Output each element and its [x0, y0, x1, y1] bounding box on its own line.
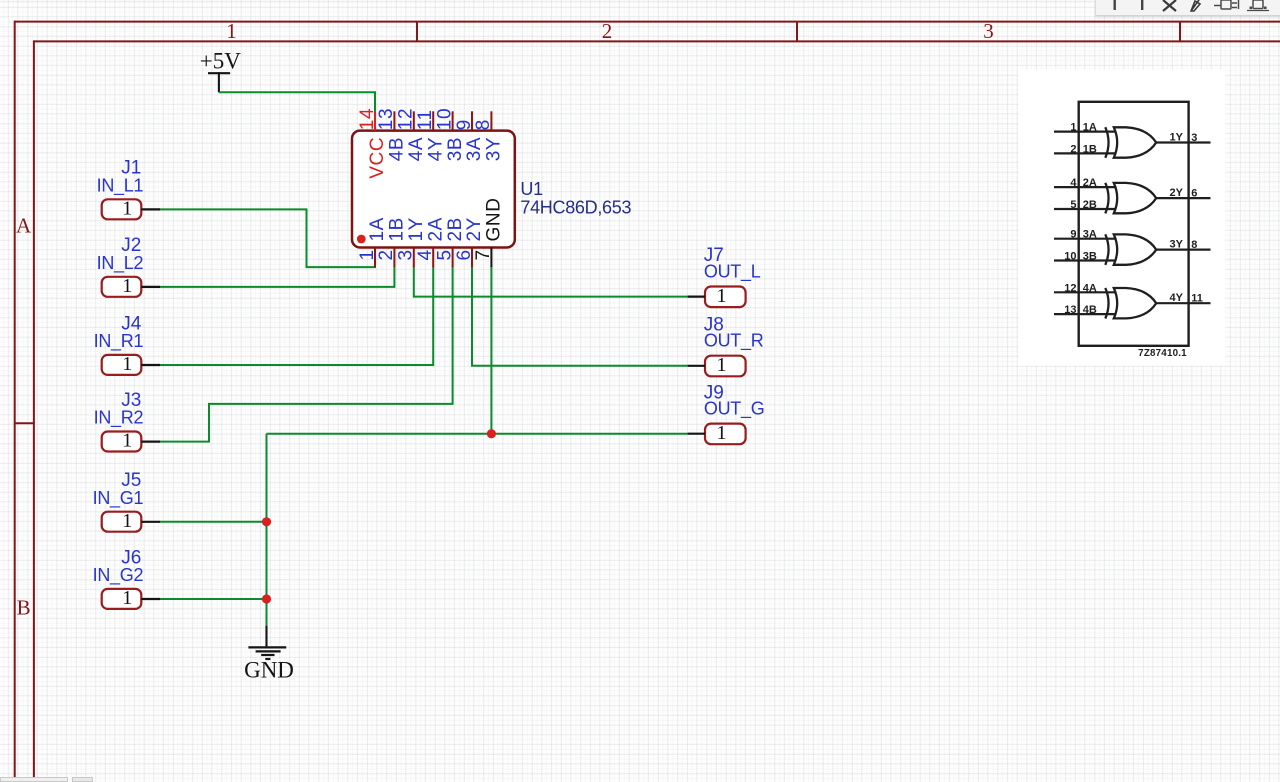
connector J8 OUT_R [688, 314, 764, 376]
toolbar icon separator 2 [1141, 0, 1143, 10]
wire U1 pin 3 to J7 [414, 266, 688, 297]
svg-text:OUT_L: OUT_L [704, 262, 761, 283]
svg-text:2: 2 [1070, 143, 1076, 155]
toolbar icon symbol-edit [1214, 0, 1239, 9]
toolbar icon delete(X) [1163, 0, 1176, 11]
U1 pin 2 (1B) [376, 217, 407, 267]
toolbar icon pen [1191, 0, 1201, 11]
svg-text:2A: 2A [425, 217, 446, 241]
svg-text:IN_R1: IN_R1 [94, 331, 144, 352]
svg-text:IN_L1: IN_L1 [97, 175, 144, 196]
connector J3 IN_R2 [94, 390, 160, 452]
svg-text:1A: 1A [1083, 122, 1097, 134]
connector J5 IN_G1 [93, 470, 160, 532]
svg-text:13: 13 [376, 108, 397, 130]
U1 pin 14 (VCC) [357, 108, 388, 179]
connector J4 IN_R1 [94, 313, 160, 375]
datasheet image background [1019, 70, 1226, 366]
svg-text:2B: 2B [1083, 199, 1097, 211]
svg-text:U1: U1 [520, 179, 543, 199]
junction at J6/GND riser [262, 594, 271, 603]
U1 pin 7 (GND) [473, 197, 504, 267]
U1 pin 9 (3A) [454, 111, 485, 161]
svg-text:3Y: 3Y [1170, 239, 1184, 251]
svg-text:4Y: 4Y [1170, 292, 1184, 304]
wire J2 to U1 pin 2 [160, 266, 394, 287]
U1 pin 12 (4A) [396, 108, 427, 161]
svg-text:OUT_R: OUT_R [704, 331, 764, 352]
svg-text:1A: 1A [367, 217, 388, 241]
U1 pin 1 (1A) [357, 217, 388, 267]
connector J9 OUT_G [688, 382, 765, 444]
U1 pin 4 (2A) [415, 217, 446, 267]
svg-text:A: A [16, 214, 32, 238]
U1 pin 5 (2B) [434, 217, 465, 267]
svg-text:4A: 4A [406, 137, 427, 161]
svg-text:1: 1 [357, 249, 378, 260]
svg-text:2B: 2B [445, 217, 466, 241]
wire J5 to GND riser [160, 521, 268, 523]
svg-text:3B: 3B [445, 137, 466, 161]
svg-text:3: 3 [396, 249, 417, 260]
svg-text:VCC: VCC [367, 137, 388, 179]
svg-text:2A: 2A [1083, 177, 1097, 189]
U1 pin 6 (2Y) [454, 217, 485, 267]
svg-text:14: 14 [357, 108, 378, 130]
svg-text:4A: 4A [1083, 282, 1097, 294]
op IC U1 body [352, 131, 515, 248]
frame column tick 1|2 [416, 22, 418, 42]
svg-text:3: 3 [1191, 132, 1197, 144]
datasheet XOR gate 4Y [1054, 282, 1211, 318]
svg-text:1B: 1B [387, 217, 408, 241]
U1 pin 11 (4Y) [415, 109, 446, 161]
svg-text:2: 2 [602, 19, 613, 43]
svg-text:8: 8 [1191, 239, 1197, 251]
power symbol +5V [200, 48, 241, 92]
wire GND bus horizontal to J9 [267, 433, 688, 435]
svg-text:IN_G1: IN_G1 [93, 488, 144, 509]
datasheet XOR gate 2Y [1054, 177, 1211, 213]
svg-text:4B: 4B [387, 137, 408, 161]
wire J3 to U1 pin 5 [160, 266, 453, 442]
svg-text:1: 1 [122, 353, 132, 375]
wire U1 pin 7 down to GND bus [490, 266, 492, 434]
U1 pin 3 (1Y) [396, 217, 427, 267]
svg-text:1: 1 [122, 510, 132, 532]
svg-text:9: 9 [1070, 229, 1076, 241]
svg-text:1: 1 [122, 275, 132, 297]
svg-text:GND: GND [484, 197, 505, 241]
wire J4 to U1 pin 4 [160, 266, 433, 365]
svg-text:6: 6 [1191, 187, 1197, 199]
svg-text:3A: 3A [464, 137, 485, 161]
svg-text:1: 1 [716, 422, 726, 444]
svg-text:1: 1 [716, 354, 726, 376]
svg-text:1Y: 1Y [406, 217, 427, 241]
svg-text:3: 3 [983, 19, 994, 43]
svg-text:10: 10 [434, 108, 455, 130]
svg-text:OUT_G: OUT_G [704, 399, 765, 420]
U1 pin 8 (3Y) [473, 111, 504, 161]
junction at J5/GND riser [262, 517, 271, 526]
svg-text:11: 11 [415, 109, 436, 130]
wire J1 to U1 pin 1 [160, 209, 376, 267]
svg-text:9: 9 [454, 119, 475, 130]
svg-text:12: 12 [396, 108, 417, 130]
svg-text:7Z87410.1: 7Z87410.1 [1138, 348, 1187, 359]
svg-text:1Y: 1Y [1170, 132, 1184, 144]
svg-text:10: 10 [1064, 251, 1076, 263]
svg-text:2Y: 2Y [464, 217, 485, 241]
wire GND riser [266, 434, 268, 627]
svg-text:1B: 1B [1083, 143, 1097, 155]
bottom-left UI remnant box 2 [72, 777, 93, 782]
svg-text:13: 13 [1064, 304, 1076, 316]
svg-text:5: 5 [434, 249, 455, 260]
svg-text:12: 12 [1064, 282, 1076, 294]
svg-text:GND: GND [244, 658, 294, 683]
svg-text:1: 1 [1070, 122, 1076, 134]
svg-text:3Y: 3Y [484, 137, 505, 161]
frame row tick A|B [15, 422, 34, 424]
U1 pin-1 marker dot [357, 235, 366, 244]
svg-text:IN_R2: IN_R2 [94, 408, 144, 429]
connector J7 OUT_L [688, 245, 761, 307]
svg-text:8: 8 [473, 119, 494, 130]
svg-text:7: 7 [473, 249, 494, 260]
svg-text:11: 11 [1191, 293, 1203, 305]
svg-text:IN_L2: IN_L2 [97, 253, 144, 274]
svg-text:1: 1 [122, 587, 132, 609]
connector J2 IN_L2 [97, 235, 160, 297]
frame column tick 2|3 [796, 22, 798, 42]
datasheet IC outline rect [1079, 102, 1189, 346]
svg-text:4B: 4B [1083, 304, 1097, 316]
toolbar icon footprint-edit [1247, 0, 1269, 11]
U1 pin 10 (3B) [434, 108, 465, 161]
svg-text:3A: 3A [1083, 229, 1097, 241]
ground symbol GND [244, 626, 294, 683]
connector J6 IN_G2 [93, 547, 160, 609]
svg-text:2: 2 [376, 249, 397, 260]
frame column tick 3|4 [1179, 22, 1181, 42]
datasheet XOR gate 3Y [1054, 229, 1211, 265]
toolbar icon separator 1 [1113, 0, 1115, 10]
svg-text:+5V: +5V [200, 48, 241, 73]
svg-text:5: 5 [1070, 199, 1076, 211]
svg-text:74HC86D,653: 74HC86D,653 [520, 198, 631, 218]
connector J1 IN_L1 [97, 158, 160, 220]
junction at pin7/GND bus [487, 429, 496, 438]
bottom-left UI remnant box 1 [0, 777, 68, 782]
wire U1 pin 6 to J8 [472, 266, 688, 366]
wire +5V to U1 pin 14 [219, 92, 375, 112]
svg-text:1: 1 [122, 197, 132, 219]
svg-text:4: 4 [1070, 177, 1077, 189]
U1 pin 13 (4B) [376, 108, 407, 161]
svg-text:B: B [17, 596, 31, 620]
svg-text:1: 1 [122, 430, 132, 452]
svg-text:1: 1 [226, 19, 237, 43]
svg-text:1: 1 [716, 285, 726, 307]
floating toolbar (clipped) [1095, 0, 1280, 16]
svg-text:2Y: 2Y [1170, 187, 1184, 199]
svg-text:3B: 3B [1083, 251, 1097, 263]
svg-text:IN_G2: IN_G2 [93, 565, 144, 586]
svg-text:4Y: 4Y [425, 137, 446, 161]
svg-text:4: 4 [415, 249, 436, 260]
svg-text:6: 6 [454, 249, 475, 260]
datasheet XOR gate 1Y [1054, 122, 1211, 158]
wire J6 to GND riser [160, 598, 268, 600]
